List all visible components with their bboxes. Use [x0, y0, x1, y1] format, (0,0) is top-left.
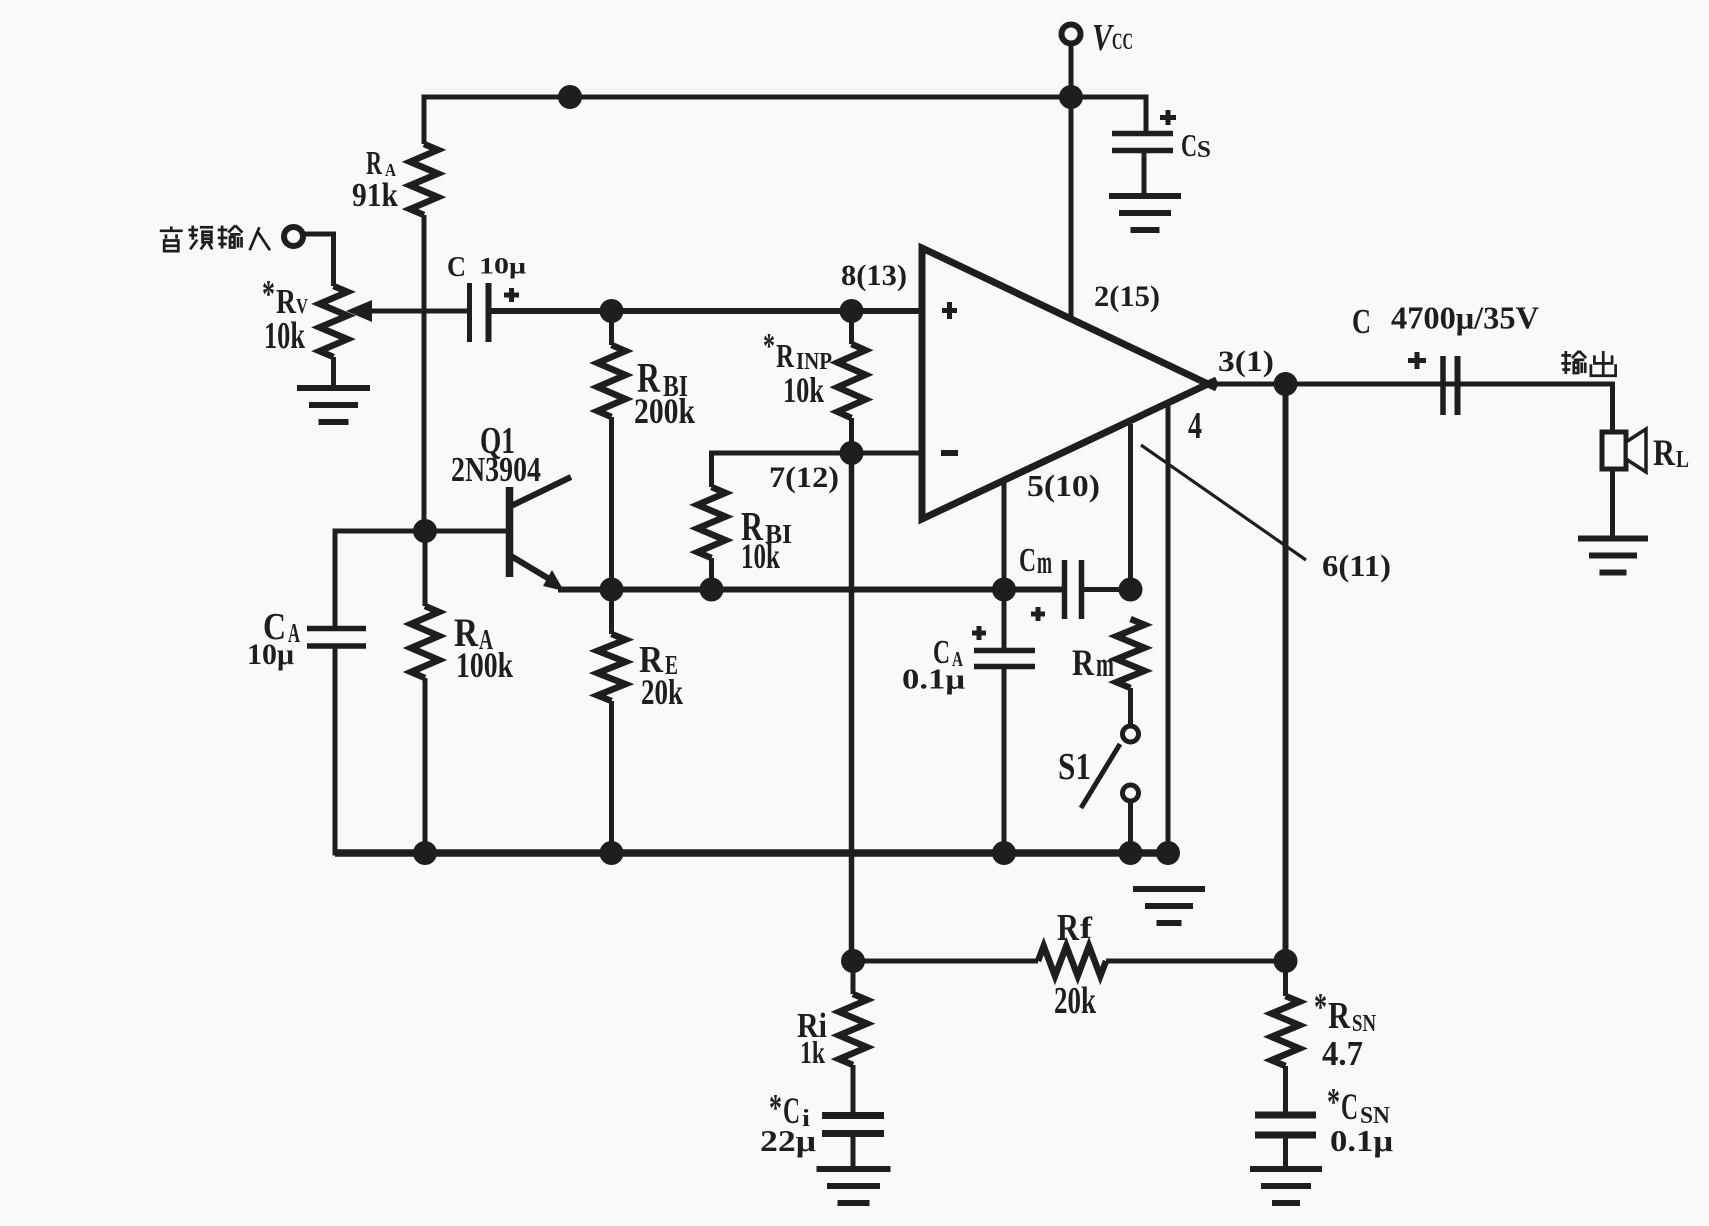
svg-text:SN: SN — [1352, 1010, 1376, 1037]
svg-text:1k: 1k — [800, 1035, 825, 1070]
node junction feedback / Rf right — [1274, 949, 1298, 973]
node junction emitter line / pin5 branch — [992, 578, 1016, 602]
svg-text:2(15): 2(15) — [1094, 281, 1160, 313]
svg-text:CC: CC — [1112, 29, 1133, 54]
svg-text:0.1μ: 0.1μ — [902, 664, 965, 695]
svg-text:f: f — [1080, 911, 1093, 945]
transistor Q1 2N3904 — [424, 420, 571, 591]
wire emitter line — [558, 587, 1063, 593]
speaker RL — [1602, 429, 1689, 473]
svg-text:2N3904: 2N3904 — [451, 450, 541, 489]
node junction rail / CA0.1 — [992, 841, 1016, 865]
svg-text:4: 4 — [1188, 405, 1202, 447]
svg-text:*: * — [769, 1086, 782, 1129]
svg-text:10k: 10k — [741, 536, 781, 576]
svg-text:10μ: 10μ — [247, 639, 294, 671]
svg-text:R: R — [1653, 432, 1675, 473]
svg-text:S1: S1 — [1058, 746, 1091, 788]
wire op-amp pin 5(10) down — [1002, 479, 1007, 590]
node junction top rail / Vcc — [1059, 85, 1083, 109]
svg-text:91k: 91k — [352, 177, 398, 214]
svg-text:10μ: 10μ — [479, 253, 526, 279]
op-amp U1 — [922, 248, 1217, 519]
capacitor C 10μ — [447, 251, 526, 342]
label pin 2(15) — [1094, 281, 1160, 313]
resistor Rm — [1072, 619, 1145, 725]
wire bottom ground rail — [335, 849, 1179, 857]
capacitor C 4700μ/35V — [1352, 301, 1539, 415]
resistor RA 91k — [352, 95, 438, 534]
svg-text:3(1): 3(1) — [1218, 346, 1274, 378]
switch S1 — [1058, 726, 1139, 853]
resistor RA 100k — [411, 531, 514, 853]
capacitor CS — [1112, 110, 1211, 163]
wire op-amp pin 4 down to ground rail — [1166, 405, 1171, 853]
node junction emitter / RE — [600, 578, 624, 602]
wire top rail to Cs — [1144, 95, 1149, 135]
wire CSN to ground — [1283, 1135, 1288, 1169]
node junction rail / RA100k — [413, 841, 437, 865]
svg-text:*: * — [262, 272, 275, 315]
capacitor Cm — [1019, 542, 1131, 621]
svg-text:22μ: 22μ — [760, 1124, 816, 1158]
wire RINP node down to feedback node — [849, 453, 855, 961]
svg-text:m: m — [1096, 645, 1114, 684]
svg-text:C: C — [1019, 542, 1036, 579]
wire noninverting input line — [489, 308, 923, 314]
node junction Ri / Rf left — [841, 949, 865, 973]
wire input terminal to RV — [303, 234, 336, 286]
wire Q1 base line to CA corner — [335, 529, 424, 534]
svg-text:m: m — [1037, 545, 1052, 581]
node junction -input / RINP — [840, 441, 864, 465]
svg-text:*: * — [1314, 985, 1327, 1028]
svg-text:C: C — [1181, 127, 1197, 163]
node junction Cm / Rm — [1119, 578, 1143, 602]
node junction top rail / Q1 collector line — [558, 85, 582, 109]
node junction rail / S1 — [1119, 841, 1143, 865]
svg-text:200k: 200k — [634, 391, 696, 431]
svg-text:S: S — [1197, 136, 1211, 163]
potentiometer RV 10k — [262, 272, 470, 388]
svg-text:C: C — [447, 251, 466, 283]
ground at bottom rail — [1133, 889, 1205, 923]
ground below Ci — [817, 1169, 891, 1203]
label pin 4 — [1188, 405, 1202, 447]
svg-text:10k: 10k — [783, 370, 825, 410]
ground below CS — [1109, 196, 1181, 230]
ground below RV — [297, 388, 370, 422]
resistor RBI 200k — [598, 311, 696, 589]
svg-text:R: R — [1072, 642, 1094, 683]
capacitor Ci 22μ — [760, 1086, 884, 1158]
wire output corner down to speaker — [1610, 382, 1615, 434]
label pin 5(10) — [1027, 469, 1100, 503]
wire base corner down to CA 10μ — [333, 531, 338, 631]
wire Cs to ground — [1142, 150, 1147, 196]
svg-text:C: C — [1341, 1086, 1358, 1127]
label pin 3(1) — [1218, 346, 1274, 378]
node junction rail / pin4 — [1156, 841, 1180, 865]
node junction +input / RINP — [840, 299, 864, 323]
label pin 6(11) with leader line — [1141, 445, 1391, 583]
wire inverting input line — [709, 451, 922, 456]
wire op-amp output — [1208, 382, 1615, 387]
svg-text:4.7: 4.7 — [1322, 1034, 1363, 1073]
svg-text:0.1μ: 0.1μ — [1330, 1124, 1393, 1158]
resistor RBI 10k — [698, 451, 793, 590]
svg-text:5(10): 5(10) — [1027, 469, 1100, 503]
resistor RE 20k — [598, 590, 684, 854]
ground below CSN — [1250, 1169, 1322, 1203]
svg-text:6(11): 6(11) — [1322, 549, 1391, 583]
node junction rail / RE — [600, 841, 624, 865]
capacitor CA 10μ — [247, 606, 366, 671]
svg-text:20k: 20k — [641, 672, 684, 712]
capacitor CA 0.1μ — [902, 590, 1035, 856]
capacitor CSN 0.1μ — [1255, 1080, 1393, 1158]
svg-text:L: L — [1676, 446, 1689, 473]
node junction emitter / RBI 10k — [700, 578, 724, 602]
wire op-amp bottom edge to Cm node — [1128, 424, 1133, 590]
ground below RL — [1578, 539, 1648, 573]
wire CA 10μ down to bottom rail — [333, 645, 338, 856]
svg-text:4700μ/35V: 4700μ/35V — [1391, 301, 1539, 336]
svg-text:8(13): 8(13) — [841, 260, 907, 292]
svg-text:7(12): 7(12) — [769, 462, 839, 494]
svg-text:R: R — [1328, 995, 1350, 1037]
svg-text:20k: 20k — [1054, 980, 1096, 1022]
label output 输出 — [1561, 351, 1615, 376]
resistor Ri 1k — [797, 961, 867, 1116]
node junction base / RA — [413, 519, 437, 543]
svg-text:*: * — [1327, 1080, 1340, 1123]
svg-text:10k: 10k — [264, 315, 305, 357]
wire feedback vertical — [1283, 384, 1289, 961]
label pin 7(12) — [769, 462, 839, 494]
power terminal Vcc — [1062, 17, 1134, 59]
svg-text:100k: 100k — [456, 645, 514, 685]
svg-text:C: C — [1352, 302, 1371, 341]
resistor RSN 4.7 — [1272, 961, 1377, 1115]
node junction output / feedback — [1274, 372, 1298, 396]
label pin 8(13) — [841, 260, 907, 292]
input terminal 音频输入 — [160, 226, 303, 252]
wire top supply rail — [422, 95, 1147, 100]
wire speaker to ground — [1610, 469, 1615, 538]
resistor Rf 20k — [853, 907, 1286, 1022]
node junction +input / RBI 200k — [600, 299, 624, 323]
wire Ci to ground — [851, 1133, 856, 1169]
svg-text:*: * — [763, 326, 775, 366]
wire Vcc vertical to op-amp pin 2(15) — [1069, 45, 1074, 319]
svg-text:R: R — [1057, 907, 1079, 949]
resistor RINP 10k — [763, 311, 866, 453]
